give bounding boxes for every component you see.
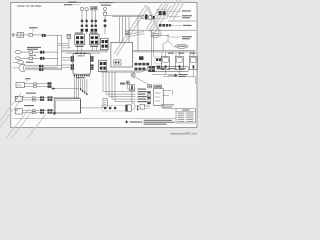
wire drop [119, 17, 121, 43]
wire [86, 11, 88, 20]
CDI right pin block 1 [90, 56, 93, 61]
wire stub [58, 43, 68, 45]
battery box inner [56, 100, 80, 113]
headlamp bulb [131, 72, 135, 77]
wire [35, 109, 40, 111]
cable terminals [137, 105, 138, 110]
wire drop [125, 17, 127, 31]
battery terminal dark [53, 112, 55, 114]
wire [44, 57, 57, 59]
pilot box [126, 81, 129, 84]
coil feed wires [162, 52, 190, 57]
svg-text:YAMAHA: YAMAHA [129, 120, 143, 124]
row B connector pair [40, 51, 44, 54]
small connector label box [148, 85, 152, 88]
wire drop [122, 17, 124, 43]
row C connector pair [40, 57, 44, 60]
connector row lower 2 [135, 68, 146, 71]
spark gap dashed box [155, 57, 162, 64]
wire [44, 109, 47, 111]
svg-text:2002 SF MODEL: 2002 SF MODEL [17, 4, 42, 8]
Yamaha diamond logo [125, 120, 128, 123]
watermark outline letter U [147, 2, 171, 33]
row H label [24, 105, 34, 106]
wire fan [25, 66, 39, 70]
wire end terminal [82, 90, 83, 92]
row A fuse [29, 34, 33, 37]
fuse label row C [29, 55, 36, 56]
resistor R2 [94, 6, 97, 10]
CDI unit box [73, 53, 90, 74]
wire drop [84, 79, 86, 91]
row G connector 1 [40, 96, 44, 101]
row H connector 2 [48, 109, 53, 114]
ignition coil 3 [189, 57, 197, 70]
wire [20, 57, 29, 59]
row D plug oval [13, 61, 34, 64]
wire [33, 34, 42, 36]
wire drop [73, 76, 75, 98]
connector row 1 [81, 20, 97, 22]
wire [43, 69, 61, 71]
staircase wire 5 [115, 72, 136, 102]
wire [104, 11, 106, 13]
connector row 3 [81, 29, 98, 32]
wire [33, 51, 40, 53]
CDI right pin block 2 [90, 64, 93, 69]
row H magneto box [15, 109, 22, 114]
wire [168, 20, 196, 22]
wire [81, 11, 83, 20]
wire [91, 10, 93, 20]
bulb L2 [85, 8, 88, 11]
starter relay dark block [139, 56, 144, 60]
lamp drop wire [133, 77, 152, 87]
fan connector pair top [39, 65, 43, 68]
dimmer label [120, 83, 125, 85]
row G terminals [33, 97, 36, 101]
row A connector pair [42, 34, 46, 37]
row A connector with eyelets [17, 33, 24, 38]
starter contacts [104, 107, 116, 109]
terminal pins stack [147, 91, 150, 104]
bus wire right segment [133, 51, 196, 53]
bus wire [107, 14, 141, 16]
wire drop [137, 17, 139, 51]
coil label 1 [168, 53, 174, 54]
lighting bus lines [101, 69, 147, 73]
wire [91, 32, 93, 35]
fuse strip box [103, 98, 107, 107]
arrow to harness [168, 74, 188, 77]
label right 1 [168, 10, 191, 11]
label leads top-left column [64, 2, 82, 6]
ground lug box [140, 104, 150, 109]
row F connector pair [48, 82, 52, 88]
wire [23, 97, 33, 99]
wire [24, 34, 29, 36]
row G label [26, 93, 36, 94]
row B fuse [29, 51, 33, 53]
switch drop wire [128, 84, 136, 89]
connector row 2 [81, 25, 97, 27]
wire [129, 29, 196, 31]
lamp L3 [103, 7, 106, 10]
label right of junction [169, 36, 192, 39]
battery box outer [54, 99, 80, 113]
fuse F1 [104, 12, 107, 15]
wire [86, 22, 88, 24]
row G connector 2 [48, 96, 53, 101]
footer note text [144, 120, 175, 125]
bus wire [112, 16, 141, 18]
wire [35, 112, 40, 114]
diode block [125, 31, 129, 35]
wire [52, 109, 54, 111]
label top-center [99, 2, 113, 6]
rectifier box with lead [67, 34, 71, 48]
wire stub to CDI [62, 59, 71, 61]
wire [95, 10, 97, 20]
ignition coil 2 [175, 57, 183, 70]
junction mark [52, 88, 55, 90]
coil label 2 [178, 53, 184, 54]
junction wires [163, 35, 172, 50]
wire [95, 22, 97, 24]
staircase wire 4 [112, 72, 136, 99]
wire [43, 65, 61, 67]
wire stub [62, 47, 71, 49]
wire [23, 99, 33, 101]
coil label 3 [190, 53, 196, 54]
wire J2 drop 2 [95, 47, 97, 51]
inner bottom border line [13, 118, 176, 120]
relay box dashed [157, 9, 167, 19]
wire [95, 32, 97, 35]
row B label [27, 47, 41, 50]
fan connector pair bottom [39, 68, 43, 71]
wire [33, 57, 40, 59]
row A label [29, 27, 38, 32]
row H terminals [33, 110, 36, 114]
label right 3 [183, 25, 192, 26]
wire drop [82, 79, 84, 90]
connector pair [104, 19, 107, 27]
wire [46, 34, 62, 36]
connector block J4 [99, 60, 107, 71]
terminal labels stack [138, 89, 147, 103]
wire stub [58, 45, 68, 47]
fuse box label [154, 85, 162, 88]
harness oval left [151, 34, 169, 38]
row C plug [15, 57, 20, 60]
wire [36, 85, 47, 87]
bus wire right segment [133, 50, 196, 52]
ignition coil 1 [162, 57, 170, 70]
wire J2 drop [91, 47, 93, 51]
CDI left pin block 1 [71, 56, 74, 61]
wire stub to CDI [62, 57, 71, 59]
wire J1 drop 2 [81, 47, 83, 54]
engine ground cluster [149, 66, 156, 71]
regulator big box [111, 42, 133, 67]
connector block J2 [89, 33, 99, 48]
row C fuse [29, 57, 33, 59]
note text left of table [161, 104, 174, 107]
staircase wire 1 [103, 72, 136, 92]
label right 2 [168, 15, 192, 18]
connector row [159, 24, 171, 27]
row G gauge box [15, 96, 22, 101]
resistor R1 [91, 7, 94, 10]
cable hook [132, 103, 135, 109]
wire [43, 68, 61, 70]
wire [104, 16, 106, 20]
connector block J3 [100, 38, 108, 50]
switch drop wire 2 [131, 90, 133, 104]
row F terminals [34, 83, 37, 88]
page background [0, 0, 200, 138]
wire end terminal [86, 93, 87, 95]
long bus wire A [62, 50, 108, 52]
wire [44, 51, 57, 53]
CDI bottom label [76, 77, 85, 78]
CDI left pin block 2 [71, 64, 74, 69]
CDI pin row bottom [74, 75, 90, 77]
row A sensor terminal [13, 34, 14, 37]
connector row lower [135, 63, 150, 66]
battery lead wire [81, 107, 102, 109]
watermark outline letter stroke top-right [167, 0, 185, 20]
relay contacts [159, 11, 166, 15]
fuse box tall [154, 89, 164, 106]
wire end terminal [84, 92, 85, 94]
schematic sheet [11, 3, 197, 128]
watermark outline letter A [114, 5, 162, 56]
long bus wire B [62, 51, 108, 53]
harness oval 2 [172, 44, 188, 48]
wire [86, 32, 88, 35]
wire J1 drop [77, 47, 79, 54]
spark plug dark [157, 66, 160, 69]
wire [172, 24, 182, 26]
relay cluster [141, 14, 155, 19]
wire [23, 112, 33, 114]
row B plug [15, 50, 21, 54]
magneto connector body [13, 65, 25, 72]
wire [14, 34, 17, 36]
wire stub to CDI [62, 64, 71, 66]
wire stub to CDI [62, 67, 71, 69]
starter cable dashed box [102, 105, 125, 111]
wire [81, 32, 83, 35]
wire drops to coils [152, 30, 194, 66]
staircase wire 2 [106, 72, 136, 94]
bus vertical left [57, 35, 59, 66]
wire [35, 99, 40, 101]
row F horn body [16, 82, 24, 87]
wire drop [86, 79, 88, 93]
long wire row F [52, 88, 80, 90]
color code table [176, 109, 195, 124]
svg-text:www.autoEPC.net: www.autoEPC.net [169, 132, 196, 136]
wire [91, 22, 93, 24]
connector block J1 [75, 33, 85, 48]
wire [44, 97, 47, 99]
dimmer switch box [129, 85, 134, 91]
staircase wire 3 [109, 72, 136, 97]
coil ground bus [152, 70, 196, 77]
row H connector 1 [40, 109, 44, 114]
wire drop [75, 76, 77, 98]
wire [23, 109, 33, 111]
watermark stripes bottom-left [0, 93, 46, 145]
bulb L1 [80, 7, 83, 10]
fuse box wires [163, 77, 196, 109]
bus vertical right [61, 35, 63, 70]
wire [24, 85, 33, 87]
wire [36, 83, 47, 85]
wire [35, 97, 40, 99]
row F label [25, 78, 31, 82]
main harness flat oval [147, 66, 189, 71]
wire drop [78, 76, 80, 98]
wire [81, 22, 83, 24]
wire end terminal [80, 88, 81, 90]
wire [24, 83, 33, 85]
long wire row G [52, 97, 79, 99]
wire [104, 27, 106, 34]
wire drop [80, 79, 82, 88]
wire [21, 51, 29, 53]
wire [43, 66, 57, 68]
starter motor box [126, 105, 132, 111]
long bus wire C [66, 52, 100, 54]
wire drop [128, 17, 130, 43]
